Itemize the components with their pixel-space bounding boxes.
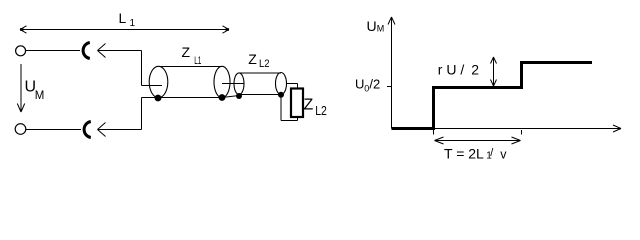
- transmission line 1 left end: [149, 66, 168, 97]
- transmission line 2 right end: [276, 73, 287, 95]
- wire vertical top to line1 inner: [141, 51, 143, 86]
- label Z_L2 load: [304, 97, 327, 118]
- wire vertical bottom to line1 outer: [141, 98, 143, 130]
- dimension arrow L1: [20, 29, 229, 31]
- terminal top: [16, 46, 26, 56]
- svg-text:M: M: [35, 90, 45, 102]
- graph vertical axis U_M: [388, 17, 395, 129]
- label U_M: [25, 79, 45, 102]
- svg-text:L2: L2: [259, 58, 270, 70]
- staircase waveform: [392, 63, 593, 129]
- label L1: [119, 10, 136, 29]
- transmission line 2 left end: [234, 73, 244, 95]
- label r U / 2: [438, 62, 480, 78]
- dimension arrow T: [435, 137, 521, 144]
- wire bottom row: [26, 129, 81, 131]
- tick T right: [521, 130, 523, 135]
- svg-text:M: M: [377, 24, 385, 34]
- axis label U0/2: [355, 77, 380, 94]
- wire stub to inner conductor of line 1: [142, 85, 163, 87]
- arrow into top connector: [98, 44, 142, 58]
- svg-text:U: U: [355, 77, 364, 92]
- svg-text:Z: Z: [304, 97, 314, 114]
- connector bottom (plug C): [84, 122, 91, 138]
- svg-text:1: 1: [130, 18, 136, 29]
- wire outer conductor line1 to line2: [222, 96, 239, 98]
- node dot line2 right: [278, 92, 284, 98]
- wire line2 to load bottom: [281, 95, 298, 121]
- svg-text:L2: L2: [315, 103, 327, 118]
- annotation arrow r U / 2: [491, 57, 497, 86]
- transmission line 2 body: [239, 73, 281, 95]
- wire top row: [26, 50, 80, 52]
- wire line2 to load top: [286, 84, 298, 89]
- terminal bottom: [15, 124, 26, 135]
- connector top (plug C): [83, 43, 90, 59]
- svg-text:v: v: [500, 148, 507, 162]
- axis label U_M: [367, 18, 385, 34]
- tick U0/2: [387, 86, 392, 88]
- wire inner conductor line1 to line2: [222, 83, 244, 85]
- graph horizontal axis t: [392, 125, 622, 132]
- svg-text:r U /: r U /: [438, 62, 465, 78]
- label T = 2L1/ v: [444, 146, 507, 162]
- svg-text:2: 2: [471, 62, 479, 78]
- load resistor Z_L2: [291, 89, 303, 118]
- transmission line 1 body: [159, 67, 223, 98]
- svg-text:/: /: [490, 147, 494, 159]
- svg-text:L1: L1: [194, 55, 201, 67]
- svg-text:L: L: [119, 10, 127, 26]
- svg-text:U: U: [367, 18, 377, 34]
- transmission line 1 right end: [214, 66, 230, 97]
- node dot line1 right: [219, 94, 226, 101]
- node dot line2 left: [236, 93, 242, 99]
- wire to outer conductor of line 1: [142, 97, 159, 99]
- node dot line1 left: [155, 95, 162, 102]
- svg-text:Z: Z: [182, 44, 191, 60]
- arrow into bottom connector: [98, 123, 142, 137]
- tick T left: [433, 130, 435, 135]
- svg-text:/2: /2: [369, 77, 380, 92]
- svg-text:T = 2L: T = 2L: [444, 146, 484, 162]
- source arrow U_M: [17, 64, 24, 112]
- svg-text:Z: Z: [248, 51, 257, 67]
- label Z_L1: [182, 44, 202, 67]
- label Z_L2 line2: [248, 51, 269, 70]
